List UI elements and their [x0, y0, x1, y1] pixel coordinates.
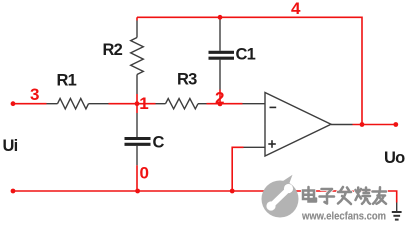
svg-text:4: 4 — [291, 0, 301, 18]
svg-text:Uo: Uo — [384, 149, 405, 167]
svg-text:www.elecfans.com: www.elecfans.com — [301, 211, 386, 223]
svg-text:3: 3 — [30, 85, 39, 104]
svg-text:1: 1 — [139, 94, 148, 113]
svg-text:R3: R3 — [177, 71, 197, 89]
svg-text:Ui: Ui — [3, 137, 18, 155]
svg-text:2: 2 — [215, 88, 224, 107]
svg-text:C1: C1 — [236, 46, 256, 64]
svg-text:R2: R2 — [103, 41, 123, 59]
svg-text:0: 0 — [140, 164, 149, 183]
svg-text:C: C — [153, 134, 165, 152]
svg-text:R1: R1 — [57, 72, 77, 90]
